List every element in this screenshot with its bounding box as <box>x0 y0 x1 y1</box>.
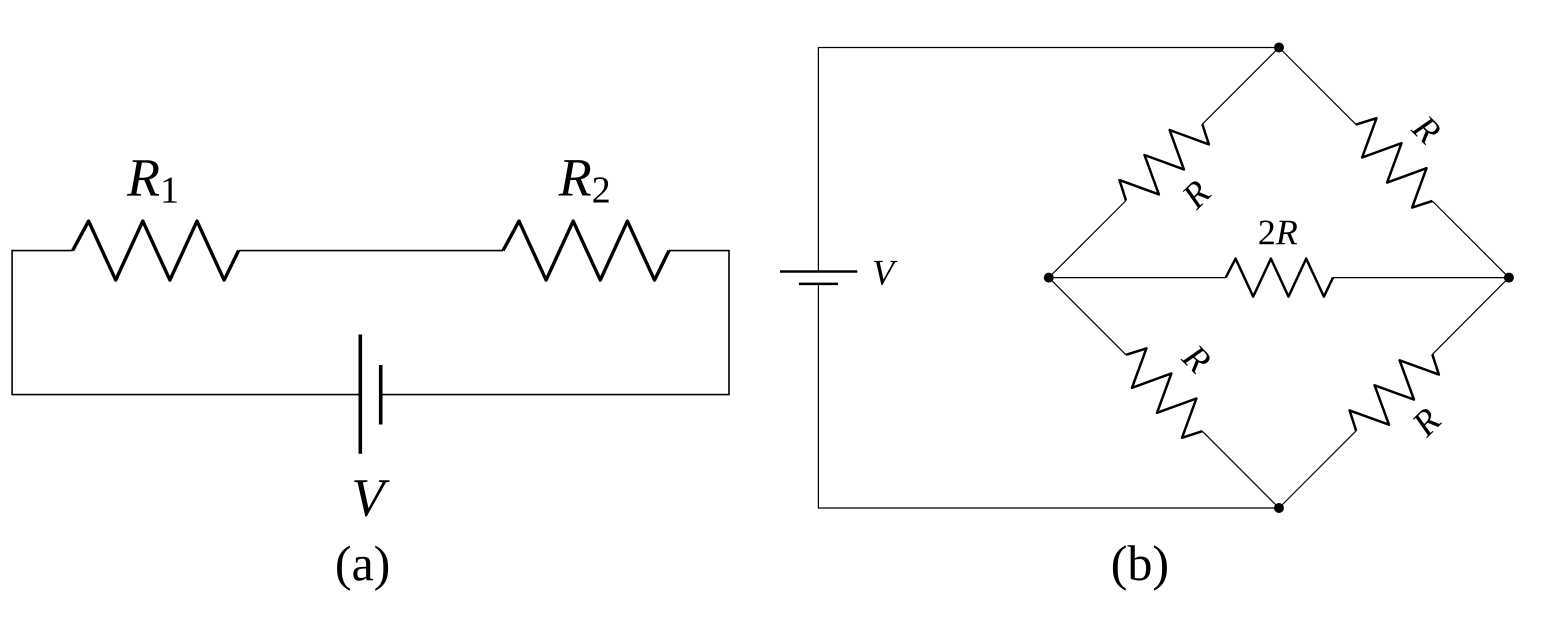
wire: bridge middle lead 2R to right node <box>1333 277 1509 279</box>
resistor lower-left R <box>1126 348 1202 437</box>
label R upper-left <box>1183 181 1212 210</box>
node bottom junction dot <box>1274 503 1284 513</box>
node right junction dot <box>1504 273 1514 283</box>
battery V (circuit b) short plate <box>799 283 838 286</box>
wire: lower-left R lead in <box>1049 278 1126 355</box>
wire: upper-right R lead in <box>1279 48 1356 125</box>
resistor R1 <box>73 221 239 280</box>
wire: circuit (a) top middle between R1 and R2 <box>239 250 503 252</box>
wire: circuit (a) left loop from R1 to battery long plate <box>12 251 360 395</box>
battery V (circuit b) long plate <box>780 270 857 273</box>
wire: circuit (a) right loop from R2 to battery short plate <box>381 251 729 395</box>
node top junction dot <box>1274 43 1284 53</box>
wire: upper-left R lead in <box>1049 201 1126 278</box>
label V (circuit a) <box>354 480 389 516</box>
wire: upper-left R lead out <box>1202 48 1279 125</box>
resistor 2R <box>1226 259 1333 297</box>
resistor lower-right R <box>1350 354 1439 430</box>
label R1 <box>127 160 177 202</box>
battery V (circuit a) long plate <box>358 335 362 454</box>
wire: circuit (b) top-left loop to battery long plate <box>818 48 1279 271</box>
label 2R <box>1259 221 1297 245</box>
label (a) <box>337 546 388 591</box>
label R2 <box>558 160 608 202</box>
label R upper-right <box>1410 116 1439 145</box>
wire: lower-right R lead in <box>1279 431 1356 508</box>
wire: lower-left R lead out <box>1202 431 1279 508</box>
node left junction dot <box>1044 273 1054 283</box>
wire: bridge middle lead left node to 2R <box>1049 277 1226 279</box>
wire: circuit (b) bottom-left loop from battery short plate <box>818 285 1279 508</box>
label (b) <box>1113 545 1167 590</box>
wire: upper-right R lead out <box>1432 201 1509 278</box>
label R lower-right <box>1413 409 1442 438</box>
label V (circuit b) <box>874 261 898 285</box>
resistor upper-left R <box>1120 124 1209 200</box>
wire: lower-right R lead out <box>1432 278 1509 355</box>
resistor R2 <box>503 221 669 280</box>
label R lower-left <box>1180 346 1209 375</box>
resistor upper-right R <box>1356 118 1432 207</box>
battery V (circuit a) short plate <box>379 365 383 425</box>
